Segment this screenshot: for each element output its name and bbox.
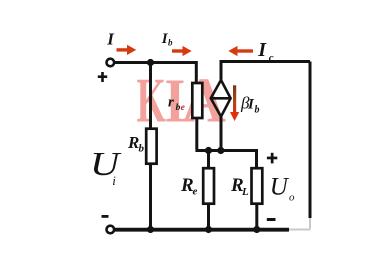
svg-text:i: i [112,173,116,188]
svg-text:o: o [289,192,295,204]
watermark KIA [137,65,227,136]
wire: RL bottom lead [255,204,258,230]
label + (input) [98,72,107,82]
resistor Re [203,168,214,204]
node: junction at base [147,59,154,66]
resistor Rb [146,129,156,164]
svg-text:r: r [168,95,174,111]
svg-text:A: A [182,66,227,136]
svg-text:U: U [270,174,290,201]
wire: right vertical faint end [309,218,311,229]
node: RL bottom junction [253,226,260,233]
wire: Re top lead [207,151,210,170]
current arrow Ic (pointing left) [228,46,253,56]
node: Re bottom junction [205,226,212,233]
svg-text:b: b [255,105,260,116]
svg-text:U: U [90,146,122,183]
node: emitter junction (source) [217,147,224,154]
node: emitter junction (Re) [205,147,212,154]
svg-text:R: R [127,133,139,152]
wire: current source top lead [221,62,310,80]
svg-text:c: c [269,52,274,64]
current arrow I [117,45,137,55]
wire: bottom rail faint end [289,229,311,231]
svg-text:b: b [139,143,145,155]
wire: Re bottom lead [207,204,210,230]
resistor RL [252,168,263,204]
current arrow Ib [172,46,192,56]
wire: current source bottom lead [220,117,223,151]
current source beta-Ib (diamond) [211,80,231,117]
wire: Rb bottom lead [149,164,152,230]
current arrow beta-Ib (downward) [230,85,239,121]
svg-text:b: b [168,38,173,48]
wire: right vertical (collector to output) [309,62,312,219]
resistor rbe [192,83,202,118]
svg-text:L: L [241,186,249,198]
label + (output) [267,153,277,164]
wire: Rb top lead [149,63,152,130]
wire: bottom rail [115,228,290,232]
svg-text:e: e [193,186,198,198]
input terminal (top, open circle) [107,59,115,67]
wire: rbe bottom lead [195,118,198,149]
node: Rb bottom junction [147,226,154,233]
svg-text:I: I [257,39,267,61]
label - (output) [267,218,276,221]
wire: top-left horizontal (base node) [115,63,197,84]
input terminal (bottom, open circle) [107,226,115,234]
label - (input) [102,215,109,218]
wire: emitter node horizontal + RL top lead [195,151,256,170]
